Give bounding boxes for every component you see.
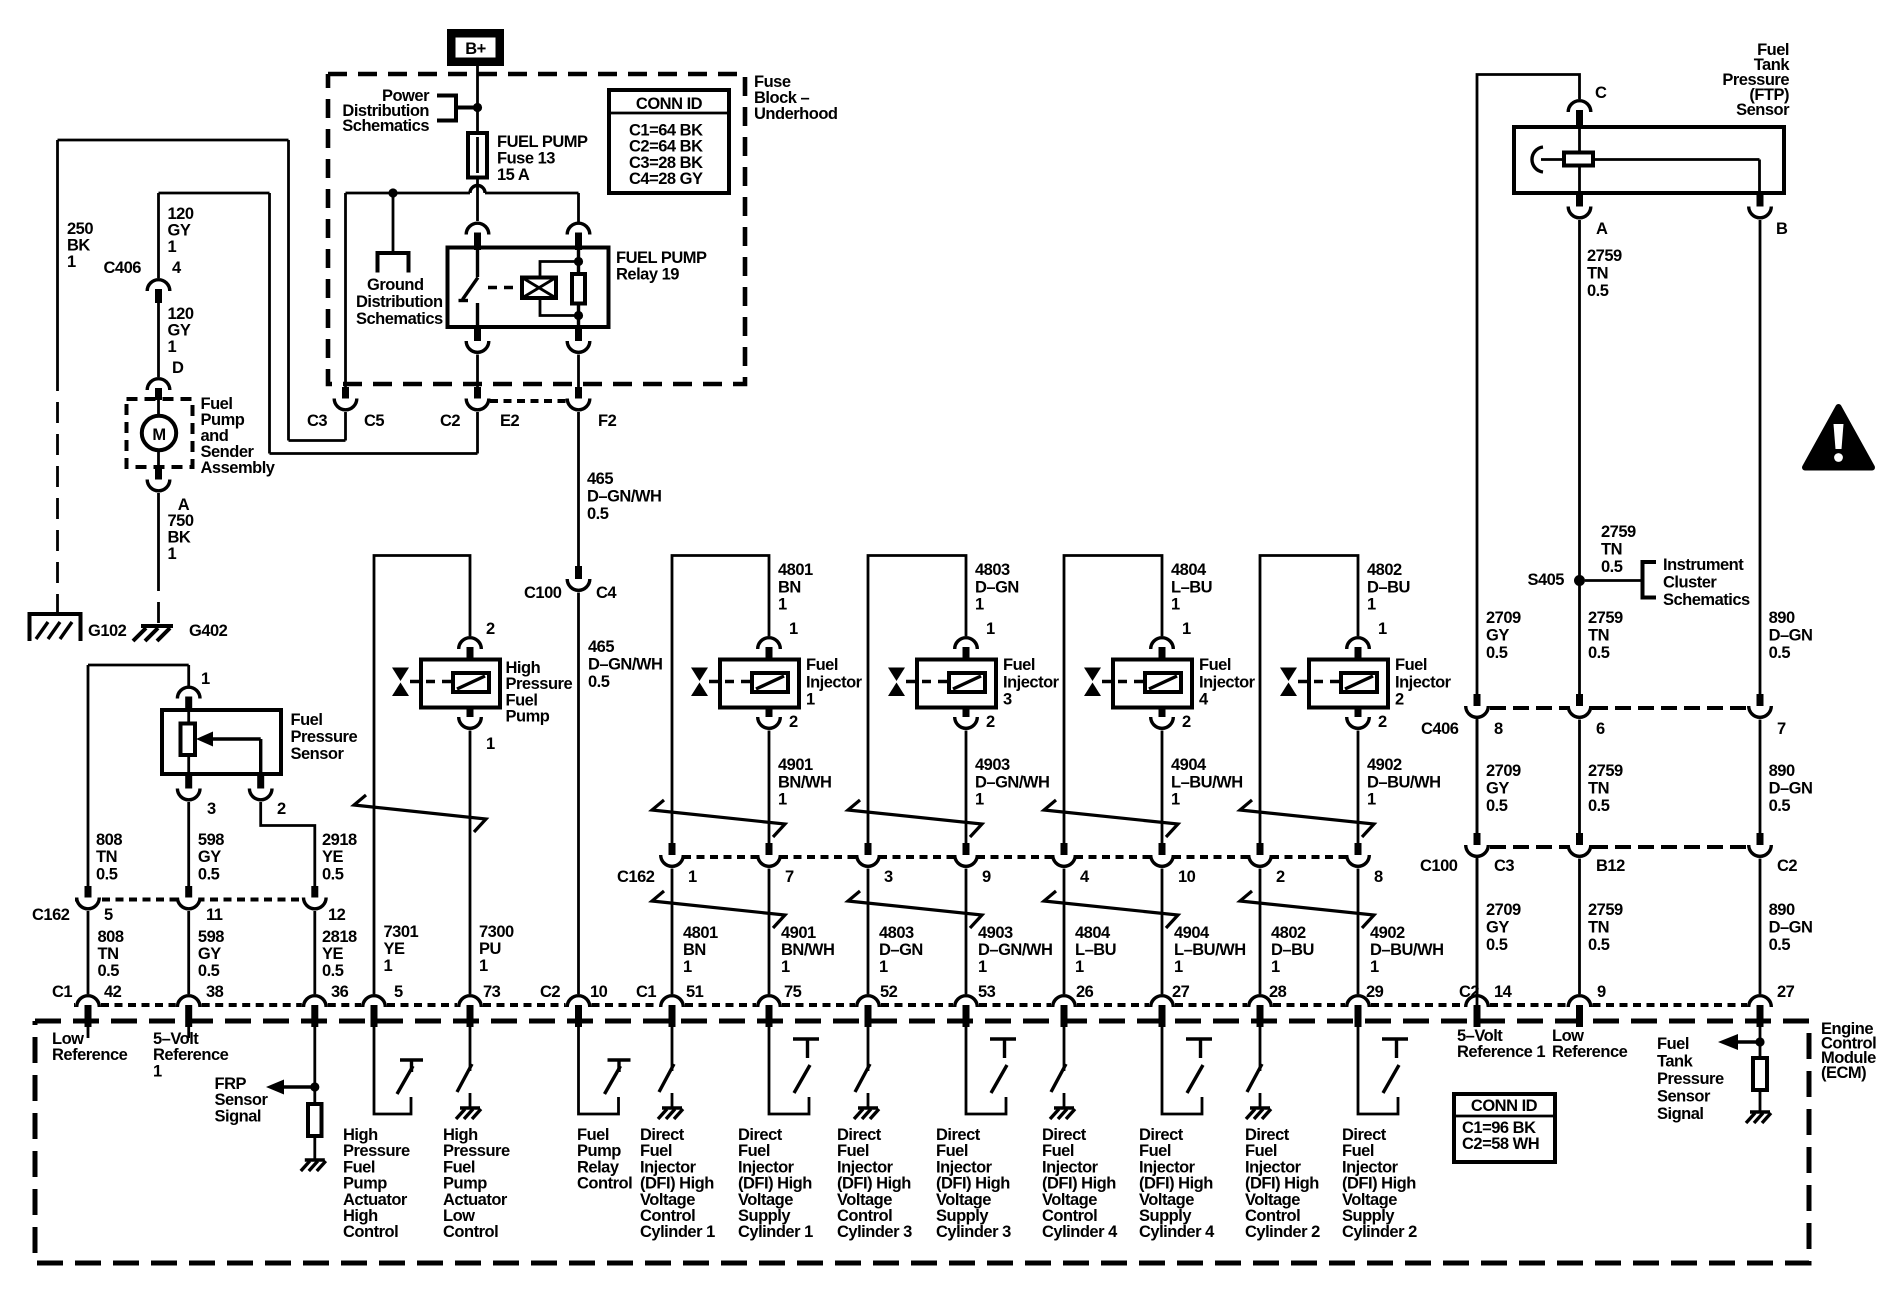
wire C3 ground loop vertical [287,140,290,441]
svg-text:L–BU: L–BU [1075,941,1116,959]
ECM driver DFI supply cylinder 3 [966,1026,1006,1114]
svg-text:0.5: 0.5 [1486,936,1508,954]
svg-text:C406: C406 [1421,720,1459,738]
connector ECM pin arch at x=1260 [1249,996,1272,1007]
wire injector 2 pin2 down [1357,731,1360,844]
svg-text:Fuel: Fuel [291,711,323,729]
svg-text:1: 1 [168,238,177,256]
wire 120 GY loop vertical [268,193,271,454]
wire coil bottom link [540,298,579,316]
connector C3-C5 fuse block pin [342,387,349,401]
relay internal resistor [572,274,585,304]
wire rail right drop to relay coil [577,193,580,222]
svg-text:Tank: Tank [1657,1053,1694,1071]
svg-text:0.5: 0.5 [1486,797,1508,815]
wire 2709 GY upper [1476,219,1479,222]
connector C100 row dashed line right [1466,845,1468,849]
svg-text:10: 10 [1178,868,1196,886]
svg-text:12: 12 [328,906,346,924]
svg-text:1: 1 [1182,620,1191,638]
connector ECM pin row dotted line [74,1003,75,1007]
connector C100 C4 stub and cup [575,566,582,581]
connector C162 pins injector 4 [1061,843,1068,857]
svg-text:GY: GY [198,945,221,963]
svg-text:38: 38 [206,983,224,1001]
svg-text:1: 1 [67,253,76,271]
connector ECM pin arch at x=188.7 [177,996,200,1007]
svg-text:4801: 4801 [683,924,718,942]
connector injector 1 pin 2 stub and cup [766,708,773,720]
wire S405 to instrument cluster bracket [1585,579,1643,582]
svg-text:Injector: Injector [1395,673,1452,691]
node B+ junction dot [473,103,482,112]
swap arrow injector 4 lower [1044,891,1178,928]
wire 250 BK top horizontal [58,139,289,142]
wire 120 GY to D [157,303,160,377]
svg-text:27: 27 [1172,983,1190,1001]
svg-text:D–GN/WH: D–GN/WH [587,488,661,506]
dashed connector link E2-F2 [490,399,566,403]
svg-text:1: 1 [1271,958,1280,976]
svg-text:9: 9 [982,868,991,886]
swap arrow injector 1 lower [652,891,785,928]
svg-text:11: 11 [206,906,223,924]
fuel pump and sender assembly dashed box [127,399,193,467]
svg-text:Signal: Signal [1657,1105,1704,1123]
svg-text:Injector: Injector [1199,673,1256,691]
svg-text:C2: C2 [1777,857,1797,875]
svg-text:1: 1 [1174,958,1183,976]
svg-text:FUEL PUMP: FUEL PUMP [497,133,588,151]
svg-text:6: 6 [1596,720,1605,738]
wire 750 BK dashed [157,570,160,626]
fuel injector 4 component [1113,660,1192,708]
svg-text:51: 51 [686,983,704,1001]
pin relay 86 stub and cup [575,327,582,343]
wire injector 3 top rail [868,556,966,844]
wire injector 3 pin2 down [965,731,968,844]
svg-text:4902: 4902 [1370,924,1405,942]
wire injector 1 top rail [672,556,769,844]
connector injector 3 pin 2 stub and cup [963,708,970,720]
wire 465 D-GN/WH lower [577,593,580,995]
fuel tank pressure sensor box [1514,127,1784,193]
svg-text:Cylinder 4: Cylinder 4 [1139,1223,1215,1241]
connector C100 pin at x=1579.5 [1576,833,1583,847]
svg-text:Pressure: Pressure [1657,1070,1724,1088]
svg-text:CONN ID: CONN ID [1471,1097,1538,1115]
svg-text:Schematics: Schematics [356,310,443,328]
svg-text:TN: TN [98,945,119,963]
svg-text:27: 27 [1777,983,1795,1001]
ECM driver DFI supply cylinder 4 [1162,1026,1202,1114]
svg-text:Underhood: Underhood [754,105,838,123]
connector ECM pin arch at x=470 [459,996,482,1007]
relay coil crossed box [522,278,556,299]
wire relay 86 down to F2 [577,355,580,388]
fuel injector 1 component [720,660,799,708]
svg-text:D–GN: D–GN [879,941,923,959]
svg-text:Sensor: Sensor [1657,1088,1711,1106]
connector C162 row dotted line left [75,898,322,902]
svg-text:2759: 2759 [1588,762,1623,780]
svg-text:0.5: 0.5 [1588,644,1610,662]
svg-text:L–BU/WH: L–BU/WH [1171,773,1243,791]
wire injector 1 pin2 down [768,731,771,844]
svg-text:GY: GY [1486,627,1509,645]
svg-text:Signal: Signal [215,1107,262,1125]
wire pump pair top rail [374,556,470,995]
ECM driver high control pin 5 [374,1026,411,1114]
svg-text:B12: B12 [1596,857,1625,875]
bracket instrument cluster reference [1643,562,1657,598]
svg-text:53: 53 [978,983,996,1001]
sensor potentiometer [181,724,196,756]
svg-text:4901: 4901 [778,756,813,774]
svg-text:7301: 7301 [384,923,419,941]
svg-text:C: C [1595,84,1607,102]
splice S405 [1574,575,1585,586]
node coil bottom dot [574,311,583,320]
svg-text:1: 1 [201,670,210,688]
ECM driver DFI control cylinder 1 [671,1026,674,1071]
svg-text:0.5: 0.5 [198,865,220,883]
svg-text:B+: B+ [465,40,486,58]
svg-text:2759: 2759 [1588,609,1623,627]
svg-text:C100: C100 [1420,857,1458,875]
svg-text:C162: C162 [617,868,655,886]
connector ECM pin arch at x=672 [661,996,684,1007]
svg-text:L–BU/WH: L–BU/WH [1174,941,1246,959]
wire stub to ground distribution [392,193,395,251]
wire B+ to fuse [476,66,479,133]
svg-text:BK: BK [67,237,90,255]
wire hop crossover at fuse output [470,186,485,193]
svg-text:1: 1 [781,958,790,976]
svg-text:0.5: 0.5 [1486,644,1508,662]
relay switch blade [476,248,479,277]
connector C162 pins injector 1 [669,843,676,857]
svg-text:S405: S405 [1527,571,1564,589]
connector pin D arch [147,379,170,390]
connector FTP pin A stub and cup [1576,193,1583,209]
engine control module ECM dashed border [35,1021,1809,1263]
svg-text:D–BU: D–BU [1367,578,1410,596]
ECM driver fuel pump relay control [579,1026,619,1114]
svg-text:5: 5 [104,906,113,924]
svg-text:0.5: 0.5 [198,962,220,980]
svg-text:TN: TN [1588,919,1609,937]
svg-text:4901: 4901 [781,924,816,942]
connector C100 pin at x=1477 [1474,833,1481,847]
svg-text:4803: 4803 [879,924,914,942]
connector ECM pin arch at x=1579.5 [1568,996,1591,1007]
wire 598 GY vertical [187,802,190,886]
svg-text:0.5: 0.5 [322,962,344,980]
svg-text:Fuel: Fuel [1657,1035,1689,1053]
svg-text:Fuel: Fuel [806,656,838,674]
svg-text:Sensor: Sensor [1736,101,1790,119]
svg-text:FUEL PUMP: FUEL PUMP [616,249,707,267]
svg-text:4803: 4803 [975,561,1010,579]
sensor wiper arrow [210,737,261,740]
svg-text:7300: 7300 [479,923,514,941]
svg-text:TN: TN [1587,265,1608,283]
svg-text:750: 750 [168,512,194,530]
svg-text:1: 1 [683,958,692,976]
svg-text:D–GN: D–GN [1769,780,1813,798]
svg-text:0.5: 0.5 [98,962,120,980]
svg-text:1: 1 [384,957,393,975]
svg-text:Assembly: Assembly [201,459,276,477]
svg-text:3: 3 [1003,691,1012,709]
fuel pump motor M [157,400,160,416]
svg-text:2818: 2818 [322,928,357,946]
CONN ID table fuse block [609,90,729,193]
svg-text:D–GN: D–GN [975,578,1019,596]
fuse F13 FUEL PUMP 15A [468,133,487,178]
swap arrow injector 3 upper [848,800,982,837]
fuel pressure sensor box [162,710,281,774]
svg-text:1: 1 [168,545,177,563]
svg-text:52: 52 [880,983,898,1001]
svg-text:TN: TN [96,848,117,866]
node ground distribution junction dot [388,188,397,197]
connector sensor pin 2 stub and cup [257,774,264,791]
svg-text:D–GN: D–GN [1769,627,1813,645]
svg-text:120: 120 [168,305,194,323]
svg-text:Control: Control [443,1223,498,1241]
svg-text:4802: 4802 [1271,924,1306,942]
svg-text:75: 75 [784,983,802,1001]
wires C100 row to ECM right [1476,859,1479,995]
fuse block underhood dashed border [328,74,745,384]
wire injector 4 pin2 down [1161,731,1164,844]
svg-text:Distribution: Distribution [356,293,443,311]
wire FRP sensor signal with arrow [87,1027,90,1038]
connector sensor pin 1 arch [187,665,190,686]
wire 120 GY down to C406 [157,193,160,278]
svg-text:2709: 2709 [1486,762,1521,780]
swap arrow pump pair [354,795,486,832]
svg-text:1: 1 [978,958,987,976]
ground distribution bracket symbol [378,253,409,273]
svg-text:808: 808 [98,928,124,946]
svg-text:4804: 4804 [1171,561,1207,579]
connector ECM pin arch at x=1358 [1347,996,1370,1007]
svg-text:1: 1 [1171,596,1180,614]
connector C406 pin at x=1579.5 [1576,694,1583,708]
svg-text:C406: C406 [104,259,142,277]
svg-text:4903: 4903 [978,924,1013,942]
svg-text:0.5: 0.5 [1769,797,1791,815]
bracket power distribution reference [437,96,456,121]
svg-text:2: 2 [789,713,798,731]
wire injector 2 top rail [1260,556,1358,844]
svg-text:Pressure: Pressure [291,728,358,746]
svg-text:1: 1 [1378,620,1387,638]
svg-text:0.5: 0.5 [588,673,610,691]
wire FTP top loop [1477,75,1580,1006]
wire 250 BK left vertical dashed [56,370,59,614]
svg-text:7: 7 [1777,720,1786,738]
svg-text:YE: YE [322,848,344,866]
svg-text:0.5: 0.5 [1769,936,1791,954]
svg-text:2709: 2709 [1486,901,1521,919]
swap arrow injector 3 lower [848,891,982,928]
wire 750 BK solid [157,493,160,570]
svg-text:1: 1 [975,596,984,614]
ground G102 symbol [30,614,81,641]
svg-text:2709: 2709 [1486,609,1521,627]
svg-text:Sensor: Sensor [291,745,345,763]
svg-text:CONN ID: CONN ID [636,95,703,113]
svg-text:36: 36 [331,983,349,1001]
svg-text:1: 1 [486,735,495,753]
svg-text:10: 10 [590,983,608,1001]
svg-text:C100: C100 [524,584,562,602]
fuel injector 3 component [917,660,996,708]
svg-text:Cylinder 1: Cylinder 1 [640,1223,715,1241]
svg-text:1: 1 [1171,791,1180,809]
connector C406 pin 4 arch [147,280,170,291]
wire 2918 YE jog [261,802,315,886]
svg-text:D–GN: D–GN [1769,919,1813,937]
fuel injector 2 component [1309,660,1388,708]
svg-text:YE: YE [322,945,344,963]
wires injector 4 to ECM row [1063,869,1066,995]
svg-text:E2: E2 [500,412,520,430]
svg-text:BN: BN [778,578,801,596]
svg-text:4802: 4802 [1367,561,1402,579]
wire injector 4 top rail [1064,556,1162,844]
connector C162 pins injector 2 [1257,843,1264,857]
svg-text:G402: G402 [189,622,228,640]
svg-text:0.5: 0.5 [1588,936,1610,954]
svg-text:1: 1 [688,868,697,886]
connector pump pin 1 stub and cup [467,708,474,720]
connector ECM pin arch at x=88 [77,996,100,1007]
svg-text:Injector: Injector [806,673,863,691]
svg-text:Cylinder 1: Cylinder 1 [738,1223,813,1241]
svg-text:Cylinder 2: Cylinder 2 [1342,1223,1417,1241]
svg-text:Pump: Pump [506,708,550,726]
svg-text:Fuel: Fuel [1003,656,1035,674]
svg-text:1: 1 [1367,596,1376,614]
relay switch-coil dashed link [488,286,521,289]
wire 890 D-GN B down [1759,220,1762,694]
svg-text:1: 1 [778,791,787,809]
svg-text:Cylinder 2: Cylinder 2 [1245,1223,1320,1241]
connector injector 2 pin 1 arch [1347,638,1370,649]
svg-text:C3: C3 [1494,857,1514,875]
svg-text:4904: 4904 [1174,924,1210,942]
svg-text:1: 1 [1075,958,1084,976]
svg-text:Injector: Injector [1003,673,1060,691]
svg-text:(ECM): (ECM) [1821,1064,1866,1082]
node coil top dot [574,257,583,266]
svg-text:7: 7 [785,868,794,886]
svg-text:Fuse 13: Fuse 13 [497,150,555,168]
svg-text:1: 1 [879,958,888,976]
svg-text:598: 598 [198,928,224,946]
high pressure fuel pump component [421,660,500,708]
connector C162 row dotted line injectors [683,855,758,859]
svg-text:Reference: Reference [153,1046,229,1064]
svg-text:Schematics: Schematics [342,117,429,135]
connector C100 pin at x=1760 [1757,833,1764,847]
wire bracket to B+ wire [456,106,478,110]
svg-text:Reference: Reference [1552,1043,1628,1061]
svg-text:29: 29 [1366,983,1384,1001]
svg-text:890: 890 [1769,901,1795,919]
svg-text:Fuel: Fuel [1199,656,1231,674]
svg-text:890: 890 [1769,609,1795,627]
pin relay 85 connector arch [567,223,590,234]
svg-text:Schematics: Schematics [1663,591,1750,609]
ECM driver DFI control cylinder 4 [1063,1026,1066,1071]
connector injector 4 pin 2 stub and cup [1159,708,1166,720]
wire FTP sensor signal with arrow [1759,1027,1762,1058]
wires injector 3 to ECM row [867,869,870,995]
svg-text:465: 465 [587,470,613,488]
wire rail left drop to C5 [344,193,347,387]
wire FRP top horizontal [88,664,189,667]
svg-text:BN: BN [683,941,706,959]
svg-text:C2=58 WH: C2=58 WH [1462,1135,1539,1153]
svg-text:TN: TN [1588,627,1609,645]
svg-text:GY: GY [168,222,191,240]
svg-text:C5: C5 [364,412,384,430]
wire C3 ground loop horizontal [289,439,346,442]
svg-text:1: 1 [789,620,798,638]
svg-text:73: 73 [483,983,501,1001]
svg-text:465: 465 [588,638,614,656]
CONN ID table ECM [1454,1094,1555,1162]
connector ECM pin arch at x=966 [955,996,978,1007]
svg-text:C2: C2 [440,412,460,430]
svg-text:Control: Control [343,1223,398,1241]
svg-text:C1: C1 [52,983,72,1001]
wire FRP 808 vertical [87,665,90,886]
svg-text:808: 808 [96,831,122,849]
ECM driver DFI control cylinder 3 [867,1026,870,1071]
svg-text:4804: 4804 [1075,924,1111,942]
connector ECM pin arch at x=1064 [1053,996,1076,1007]
svg-text:1: 1 [1370,958,1379,976]
swap arrow injector 4 upper [1044,800,1178,837]
connector C162 pin at x=88 [85,886,92,900]
svg-text:B: B [1776,220,1788,238]
connector ECM pin arch at x=314.8 [304,996,327,1007]
wire fuse output horizontal rail [346,192,471,195]
svg-text:2: 2 [486,620,495,638]
svg-text:1: 1 [778,596,787,614]
svg-text:4903: 4903 [975,756,1010,774]
connector injector 1 pin 1 arch [758,638,781,649]
warning triangle symbol [1805,407,1872,468]
connector ECM pin arch at x=374 [363,996,386,1007]
svg-text:G102: G102 [88,622,127,640]
connector ECM pin arch at x=1477 [1466,996,1489,1007]
connector F2 fuse block pin [575,387,582,401]
connector ECM pin arch at x=1162 [1151,996,1174,1007]
svg-text:D–BU: D–BU [1271,941,1314,959]
connector ECM pin arch at x=578.5 [567,996,590,1007]
svg-text:26: 26 [1076,983,1094,1001]
connector C162 pin at x=314.8 [311,886,318,900]
svg-text:GY: GY [1486,919,1509,937]
